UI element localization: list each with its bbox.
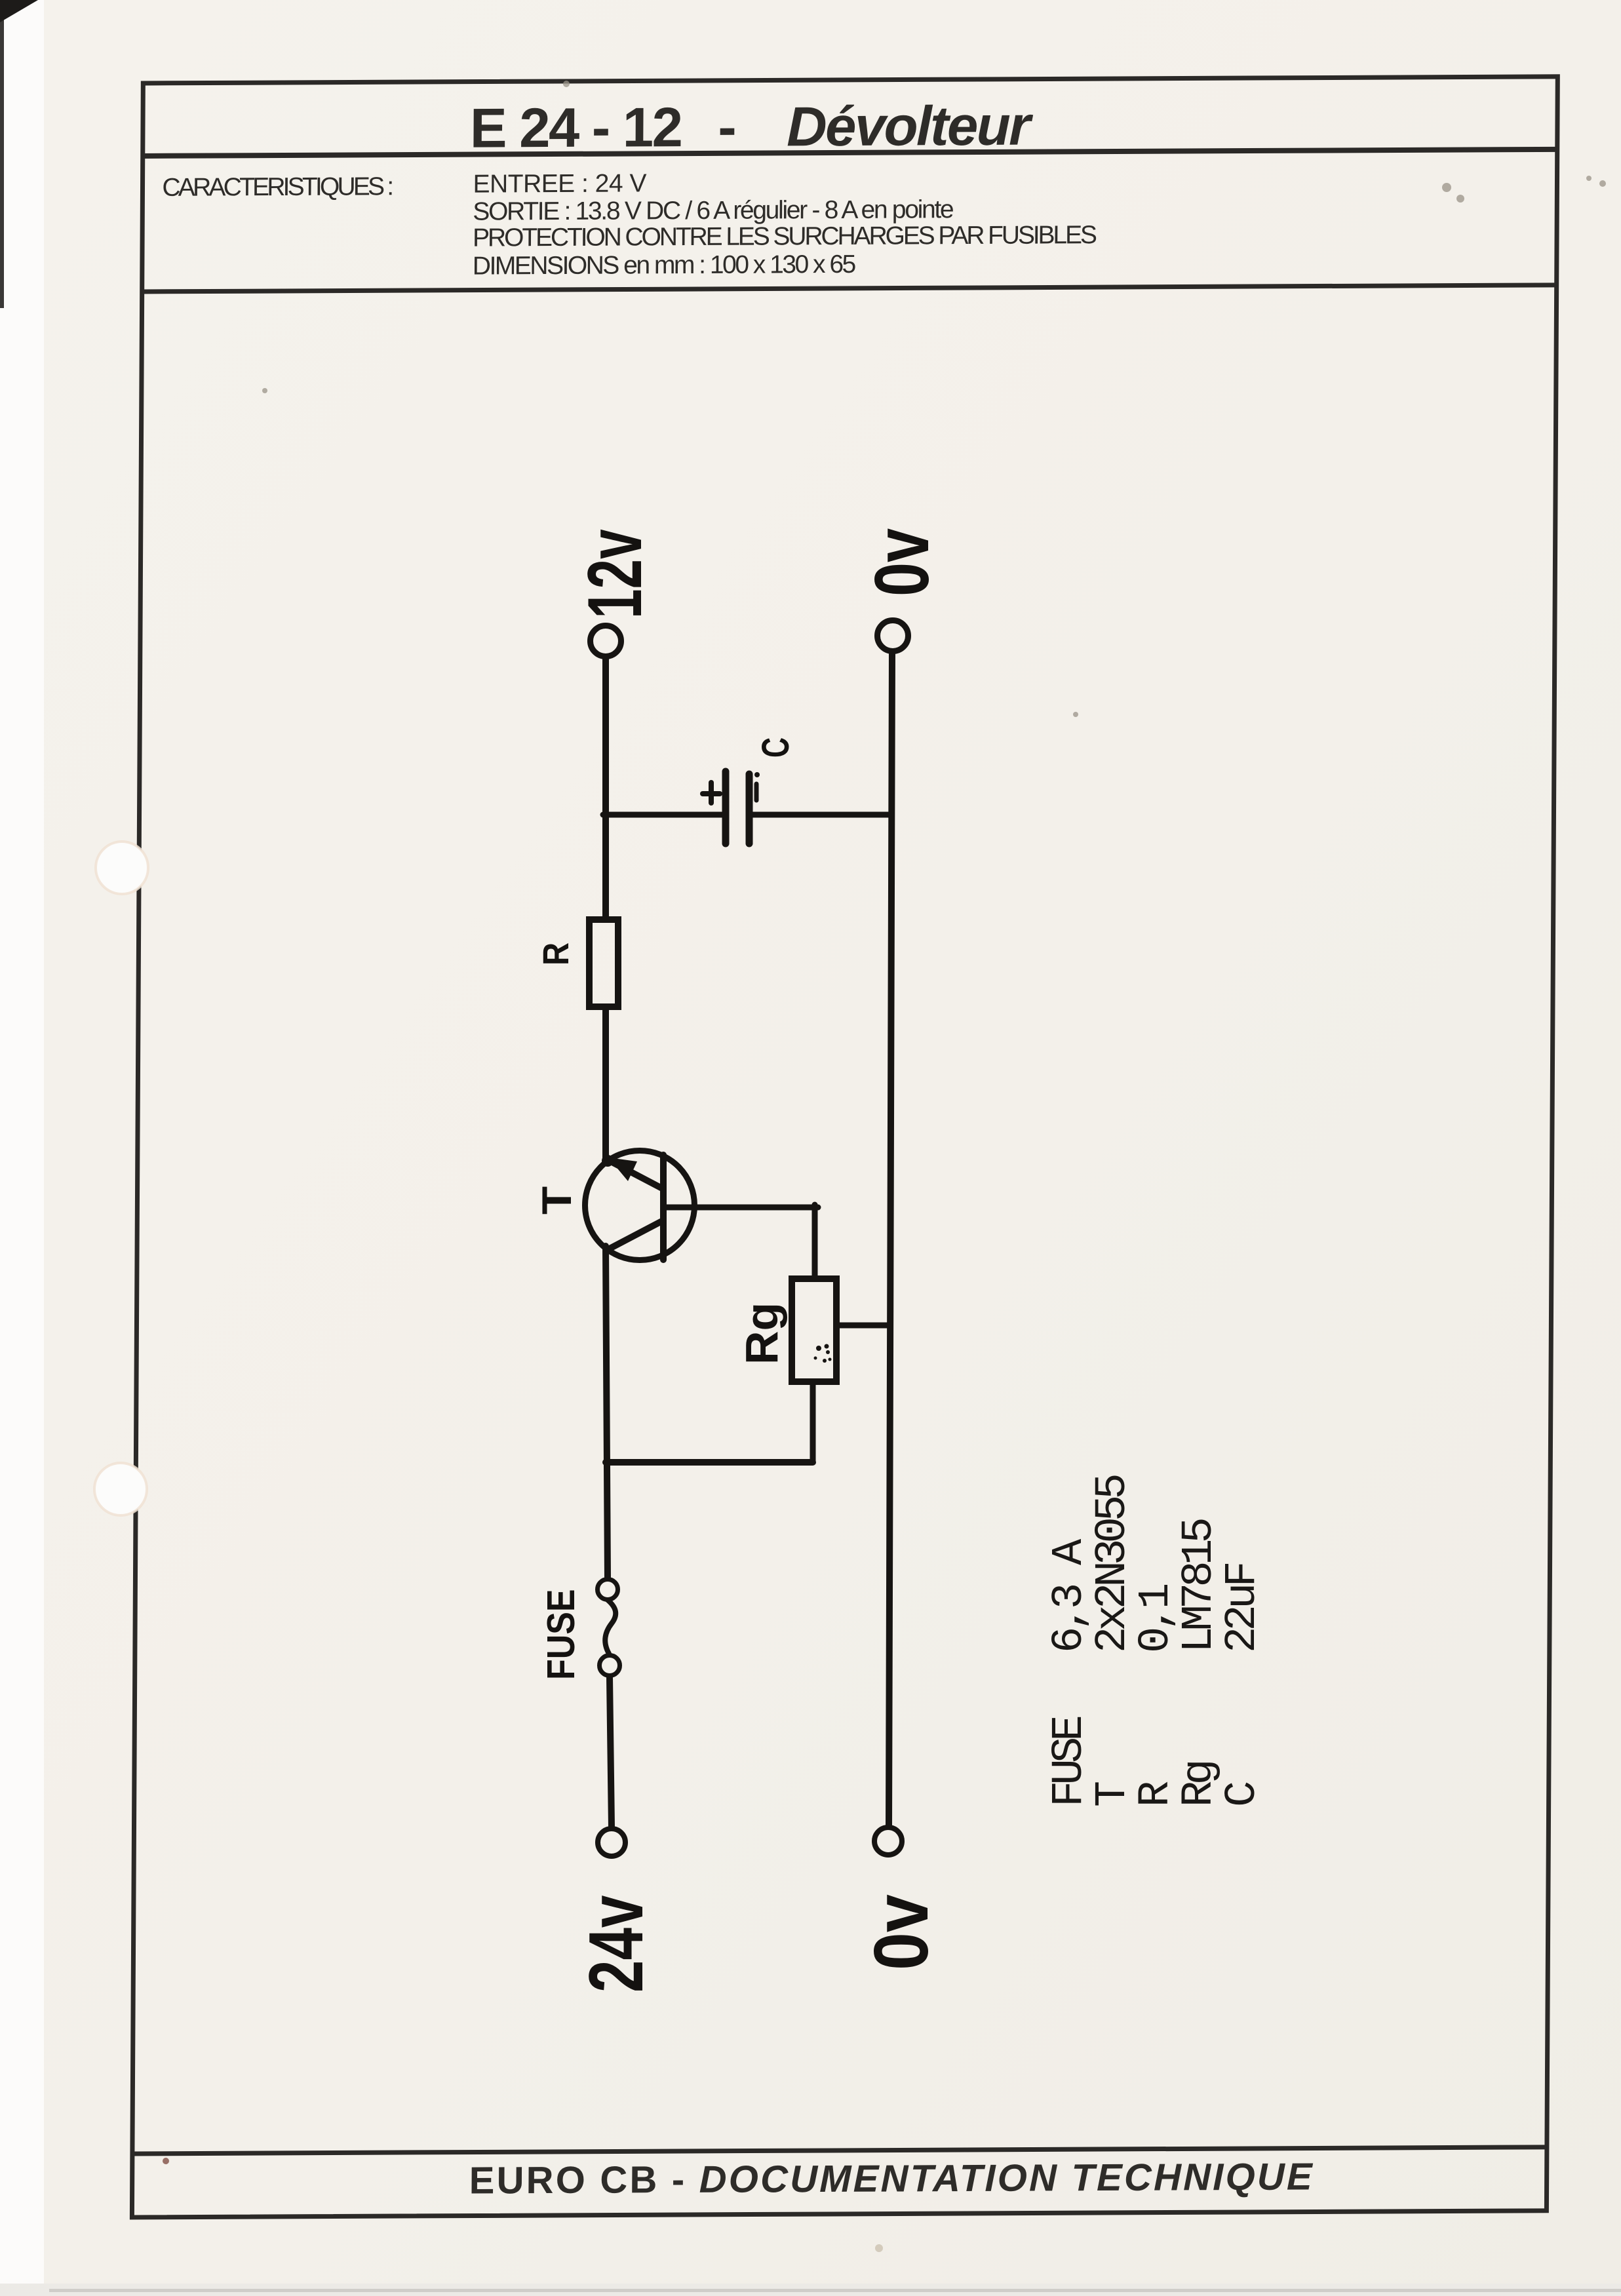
- title band separator line: [143, 149, 1557, 156]
- fuse bottom circle: [600, 1656, 620, 1676]
- svg-text:EURO CB - DOCUMENTATION TECHNI: EURO CB - DOCUMENTATION TECHNIQUE: [469, 2155, 1315, 2202]
- svg-text:CARACTERISTIQUES :: CARACTERISTIQUES :: [162, 172, 392, 202]
- transistor emitter diagonal: [608, 1160, 661, 1188]
- svg-text:FUSE: FUSE: [539, 1589, 583, 1680]
- small ink mark beside right plate: [754, 784, 759, 800]
- wire transistor to fuse: [606, 1246, 608, 1578]
- svg-text:Rg: Rg: [736, 1302, 787, 1365]
- scanner bottom light band: [0, 2284, 1621, 2296]
- punch hole upper: [96, 842, 148, 894]
- wire Rg bottom: [810, 1382, 816, 1461]
- wire Rg right tap to 0v rail: [840, 1323, 889, 1329]
- svg-text:2x2N3055: 2x2N3055: [1088, 1475, 1138, 1653]
- schematic hand labels (rotated): [534, 528, 945, 1993]
- scanner white strip left: [0, 0, 44, 2296]
- svg-text:0v: 0v: [859, 1894, 944, 1970]
- svg-text:FUSE: FUSE: [1045, 1717, 1095, 1807]
- transistor collector diagonal: [608, 1222, 661, 1249]
- svg-text:22uF: 22uF: [1218, 1563, 1268, 1653]
- wire 0v rail right: [889, 653, 892, 1826]
- regulator Rg body: [792, 1279, 836, 1382]
- svg-text:Rg: Rg: [1175, 1762, 1224, 1807]
- transistor emitter arrowhead: [608, 1158, 637, 1181]
- wire node to capacitor left: [603, 812, 723, 818]
- svg-text:24v: 24v: [574, 1895, 659, 1993]
- capacitor C left plate: [722, 771, 730, 844]
- characteristics band separator line: [142, 285, 1557, 292]
- svg-text:6,3 A: 6,3 A: [1045, 1538, 1095, 1653]
- terminal 24v: [598, 1829, 625, 1856]
- svg-text:ENTREE : 24 V: ENTREE : 24 V: [473, 169, 646, 198]
- svg-text:T: T: [534, 1186, 580, 1215]
- terminal 0v bottom: [874, 1827, 902, 1855]
- svg-text:LM7815: LM7815: [1175, 1519, 1224, 1653]
- svg-text:0v: 0v: [859, 528, 945, 596]
- svg-text:0,1: 0,1: [1131, 1585, 1181, 1653]
- scanner dark corner wedge top-left: [0, 0, 38, 22]
- fuse S wire: [605, 1600, 615, 1654]
- plus sign of capacitor: [703, 791, 720, 796]
- punch hole lower: [94, 1463, 147, 1515]
- svg-text:R: R: [536, 943, 577, 965]
- svg-text:T: T: [1088, 1782, 1138, 1807]
- svg-text:12v: 12v: [573, 529, 658, 619]
- scanner dark left edge: [0, 0, 4, 308]
- wire fuse to 24v terminal: [610, 1677, 612, 1827]
- wire capacitor right to 0v rail: [752, 812, 891, 818]
- parts list (typewriter, rotated): [1045, 1475, 1268, 1807]
- svg-text:DIMENSIONS en mm : 100 x 130: DIMENSIONS en mm : 100 x 130 x 65: [473, 250, 856, 281]
- resistor R body: [589, 920, 618, 1007]
- wire 12v to R: [602, 658, 609, 918]
- junction blob emitter/wire: [602, 1155, 614, 1167]
- svg-text:R: R: [1131, 1781, 1181, 1807]
- ink smudge dots inside Rg: [814, 1344, 832, 1363]
- transistor T circle: [585, 1151, 695, 1260]
- svg-text:C: C: [754, 737, 797, 758]
- footer band separator line: [132, 2147, 1547, 2154]
- svg-text:SORTIE : 13.8 V DC / 6 A régul: SORTIE : 13.8 V DC / 6 A régulier - 8 A …: [473, 195, 953, 225]
- fuse top circle: [598, 1580, 618, 1600]
- terminal 12v: [591, 626, 621, 657]
- svg-text:C: C: [1218, 1782, 1268, 1807]
- svg-text:PROTECTION CONTRE LES SURCHARG: PROTECTION CONTRE LES SURCHARGES PAR FUS…: [473, 221, 1097, 252]
- capacitor C right plate: [746, 774, 753, 844]
- wire R to transistor: [602, 1008, 609, 1161]
- base wire to Rg: [666, 1205, 818, 1211]
- terminal 0v top: [878, 621, 908, 652]
- transistor base bar: [660, 1155, 667, 1260]
